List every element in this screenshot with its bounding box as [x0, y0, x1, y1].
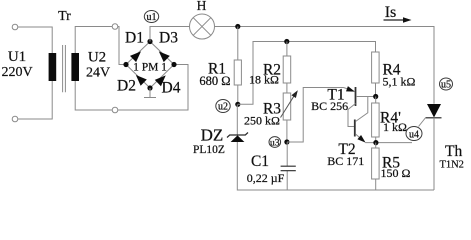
wire: [18, 27, 52, 53]
svg-text:PL10Z: PL10Z: [193, 144, 225, 156]
wire u2 to divider bus: [238, 42, 376, 105]
resistor R2: [286, 42, 288, 94]
resistor R4': [375, 97, 377, 104]
svg-text:5,1 kΩ: 5,1 kΩ: [383, 75, 416, 89]
secondary winding U2: [71, 53, 79, 81]
primary top terminal: [12, 24, 18, 30]
wire AC input right: [118, 65, 188, 111]
secondary bottom terminal: [112, 107, 118, 113]
diode D1: [130, 48, 144, 62]
zener diode DZ: [236, 104, 238, 135]
capacitor C1: [286, 142, 288, 190]
svg-text:U1: U1: [8, 49, 26, 65]
node u3: [284, 139, 289, 144]
diode D4: [155, 72, 169, 86]
svg-text:D2: D2: [117, 78, 136, 95]
svg-text:1 kΩ: 1 kΩ: [383, 120, 407, 134]
wire bridge top to main bus: [150, 27, 190, 42]
thyristor Th: [427, 104, 441, 118]
node bridge right: [171, 62, 176, 67]
wire u3 riser to T1 emitter: [287, 88, 344, 143]
svg-text:24V: 24V: [86, 66, 110, 81]
svg-text:220V: 220V: [1, 65, 32, 80]
node u2: [235, 102, 240, 107]
svg-text:Th: Th: [445, 143, 462, 160]
wire: [75, 81, 112, 110]
secondary top terminal: [112, 24, 118, 30]
transistor T1: [355, 87, 357, 106]
svg-text:u3: u3: [270, 139, 280, 149]
bridge rectifier outline 1 PM 1: [126, 42, 174, 89]
svg-text:DZ: DZ: [201, 126, 224, 145]
node bridge bottom: [147, 85, 152, 90]
wire: [18, 81, 52, 119]
svg-text:680 Ω: 680 Ω: [199, 74, 230, 88]
svg-text:U2: U2: [88, 50, 106, 66]
wire main bus to thyristor: [215, 27, 435, 104]
svg-text:BC 171: BC 171: [327, 154, 364, 168]
node bridge left: [123, 62, 128, 67]
transistor T2: [354, 120, 356, 137]
ground: [144, 88, 156, 98]
resistor R5: [375, 143, 377, 148]
wire AC input left: [118, 27, 124, 65]
svg-text:u1: u1: [147, 12, 157, 23]
current arrow Is: [384, 19, 405, 21]
svg-text:u2: u2: [218, 102, 228, 113]
svg-text:H: H: [197, 0, 207, 13]
svg-text:0,22 µF: 0,22 µF: [247, 171, 285, 185]
svg-text:T1N2: T1N2: [439, 159, 464, 170]
svg-text:u4: u4: [409, 129, 419, 140]
node R1 tap: [235, 24, 240, 29]
node bridge top: [147, 39, 152, 44]
node gate / R4'-R5 junction: [373, 140, 378, 145]
svg-text:BC 256: BC 256: [311, 99, 348, 113]
svg-text:Tr: Tr: [58, 9, 71, 24]
primary winding U1: [49, 53, 57, 81]
svg-text:Is: Is: [385, 4, 397, 21]
resistor R4: [372, 52, 380, 83]
resistor R1: [237, 27, 239, 105]
svg-text:250 kΩ: 250 kΩ: [244, 114, 280, 128]
node T1 base / R4-R4' junction: [373, 94, 378, 99]
node u5: [440, 78, 453, 90]
svg-text:D1: D1: [125, 30, 144, 47]
svg-text:150 Ω: 150 Ω: [381, 166, 411, 180]
wire: [75, 27, 112, 54]
svg-text:C1: C1: [251, 153, 269, 170]
diode D3: [156, 48, 170, 62]
svg-text:D4: D4: [162, 80, 181, 97]
potentiometer R3: [283, 93, 291, 120]
svg-text:u5: u5: [441, 80, 451, 91]
wire gate to thyristor: [419, 118, 426, 127]
transformer core: [63, 45, 66, 92]
svg-text:D3: D3: [159, 30, 178, 47]
lamp H: [190, 14, 215, 39]
diode D2: [133, 72, 147, 86]
svg-text:18 kΩ: 18 kΩ: [249, 72, 279, 86]
node u4: [406, 127, 422, 141]
primary bottom terminal: [12, 116, 18, 122]
svg-text:1 PM 1: 1 PM 1: [133, 62, 167, 74]
node R2 tap: [284, 39, 289, 44]
node u1: [144, 11, 158, 23]
